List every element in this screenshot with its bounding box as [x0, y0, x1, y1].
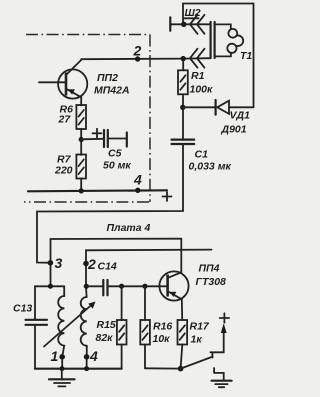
- svg-text:1к: 1к: [191, 334, 203, 346]
- wire row B junction down to R1: [182, 59, 184, 71]
- label ПП2 МП42А: [94, 72, 130, 97]
- label T1: [240, 50, 252, 62]
- svg-text:С1: С1: [195, 149, 209, 161]
- socket contact (row A): [170, 17, 184, 30]
- diode VD1 Д901: [183, 100, 254, 115]
- switch lower throw to ground: [214, 368, 224, 380]
- svg-text:100к: 100к: [190, 84, 214, 96]
- resistor R17: [178, 320, 188, 368]
- wire node2 to row B: [184, 57, 211, 59]
- junction R7-rail: [79, 188, 84, 193]
- wire C1 down and left to board 2 pin 3: [37, 144, 183, 262]
- board 2 top wire (pin3 riser to collector): [51, 239, 182, 286]
- pin 4 dot: [84, 348, 98, 364]
- svg-text:С5: С5: [108, 148, 122, 160]
- plug pin chevrons row B: [190, 49, 205, 68]
- svg-text:0,033 мк: 0,033 мк: [189, 161, 232, 173]
- polarity + at rail end: [163, 192, 172, 201]
- switch upper throw to + supply: [210, 323, 226, 352]
- capacitor C1: [172, 140, 195, 144]
- transistor Q1 ПП2 МП42А: [39, 60, 87, 106]
- wire diode junction down to C1: [182, 107, 184, 139]
- svg-text:50 мк: 50 мк: [103, 160, 131, 172]
- label VД1 Д901: [221, 110, 251, 136]
- junction dot diode row: [180, 105, 185, 110]
- svg-text:2: 2: [133, 43, 142, 59]
- label R1 100к: [190, 70, 214, 96]
- inductor L1 winding b: [81, 286, 87, 368]
- label Плата 4: [107, 222, 151, 234]
- switch blade: [181, 352, 213, 368]
- svg-text:ГТ308: ГТ308: [196, 276, 227, 288]
- svg-text:R17: R17: [190, 321, 210, 333]
- wire R1 to diode junction: [182, 94, 184, 107]
- label C5 50 мк: [103, 148, 131, 172]
- svg-text:Д901: Д901: [221, 124, 247, 136]
- board 2 second wire (pin2 riser, ends right): [86, 250, 212, 287]
- label R15 82к: [96, 319, 116, 344]
- junction dot R15: [119, 284, 124, 289]
- svg-text:27: 27: [58, 114, 72, 126]
- svg-text:2: 2: [87, 256, 96, 272]
- svg-text:R15: R15: [97, 319, 116, 331]
- headphone T1: [215, 24, 244, 56]
- variable inductor arrow: [44, 302, 96, 347]
- svg-text:4: 4: [133, 172, 142, 188]
- svg-text:Плата 4: Плата 4: [107, 222, 151, 234]
- label R17 1к: [190, 321, 210, 346]
- pin 2 dot: [83, 256, 96, 272]
- label C14: [98, 261, 117, 273]
- headphone jack sleeve bars: [211, 22, 215, 58]
- svg-text:220: 220: [54, 165, 73, 177]
- capacitor C13: [26, 320, 48, 369]
- resistor R15: [117, 286, 127, 368]
- board 1 boundary dash-dot bottom edge: [24, 201, 149, 203]
- svg-text:R16: R16: [153, 321, 172, 333]
- svg-text:1: 1: [51, 348, 59, 364]
- switch feed wire: [145, 367, 181, 369]
- node 4 (board pin): [133, 172, 142, 194]
- inductor L1 winding a: [58, 286, 64, 368]
- junction dot row B (to R1): [181, 56, 186, 61]
- junction dot R16: [142, 284, 147, 289]
- resistor R16: [140, 286, 150, 368]
- label C1 0,033 мк: [189, 149, 232, 173]
- label R7 220: [54, 154, 73, 177]
- svg-text:4: 4: [89, 348, 98, 364]
- svg-text:Т1: Т1: [240, 50, 252, 62]
- junction dot pin3 riser / tank top: [48, 284, 53, 289]
- switch pivot dot: [178, 366, 184, 372]
- rail (minus bus) board 1: [28, 190, 167, 191]
- svg-text:С13: С13: [13, 303, 32, 315]
- label Ш2 (underlined): [184, 7, 201, 19]
- junction dot coil b top: [84, 284, 89, 289]
- ground symbol right: [212, 381, 232, 388]
- node 2 (board pin): [133, 43, 142, 62]
- svg-text:VД1: VД1: [230, 110, 251, 122]
- resistor R6: [76, 105, 86, 129]
- wire R6 to R7: [80, 129, 82, 155]
- polarity + at switch: [220, 313, 229, 322]
- wire collector ПП2 to node 2: [81, 58, 183, 61]
- svg-text:82к: 82к: [96, 332, 114, 344]
- label C13: [13, 303, 32, 315]
- svg-text:Ш2: Ш2: [185, 7, 201, 19]
- plug pin chevrons row A: [184, 15, 211, 34]
- node junction C5 tap: [79, 137, 84, 142]
- ground symbol left: [49, 369, 75, 387]
- board 1 boundary dash-dot top edge: [26, 34, 150, 36]
- junction dots on ground bus: [60, 366, 90, 371]
- pin 1 dot: [51, 348, 66, 364]
- label R16 10к: [153, 321, 173, 346]
- svg-text:ПП4: ПП4: [199, 263, 220, 275]
- svg-text:10к: 10к: [153, 333, 171, 345]
- label R6 27: [58, 104, 74, 126]
- connector Ш2 top feed wire: [183, 4, 254, 108]
- resistor R7: [76, 155, 86, 179]
- transistor Q2 ПП4 ГТ308: [159, 271, 188, 320]
- svg-text:ПП2: ПП2: [97, 72, 118, 84]
- capacitor C5 (polarized): [81, 129, 127, 147]
- junction dot row A: [181, 22, 186, 27]
- board 1 boundary dash-dot right edge: [149, 35, 151, 203]
- wire R7 to rail: [80, 179, 82, 192]
- svg-text:3: 3: [55, 255, 63, 271]
- capacitor C14: [86, 280, 167, 295]
- svg-text:R1: R1: [191, 70, 205, 82]
- ground bus board 2: [35, 368, 122, 370]
- label ПП4 ГТ308: [196, 263, 227, 289]
- pin 3 dot: [48, 255, 63, 271]
- svg-text:С14: С14: [98, 261, 117, 273]
- wire C13 branch top: [35, 286, 64, 319]
- resistor R1: [178, 70, 188, 94]
- svg-text:МП42А: МП42А: [94, 85, 130, 97]
